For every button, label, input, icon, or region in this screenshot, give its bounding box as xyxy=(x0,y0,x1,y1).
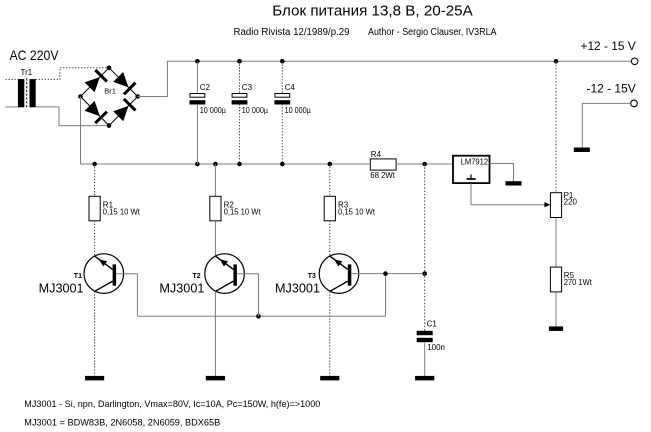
wire top bus to P1 xyxy=(555,61,557,192)
svg-text:Radio Rivista 12/1989/p.29: Radio Rivista 12/1989/p.29 xyxy=(234,27,350,38)
wire base bus riser xyxy=(385,274,387,317)
junction bridge left corner xyxy=(78,94,83,99)
terminal -12V output xyxy=(631,100,638,107)
svg-text:C1: C1 xyxy=(427,319,438,328)
wiper arrow P1 xyxy=(544,202,550,207)
wire R3 to T3 emitter xyxy=(329,221,331,256)
svg-text:100n: 100n xyxy=(427,343,445,352)
junction top bus P1 xyxy=(554,59,559,64)
svg-text:Блок питания 13,8 В, 20-25А: Блок питания 13,8 В, 20-25А xyxy=(272,3,473,19)
wire R4 to regulator xyxy=(396,163,453,165)
ground R5 xyxy=(549,326,563,331)
junction neg bus R3 xyxy=(328,162,333,167)
transistor T1 MJ3001 xyxy=(84,254,124,294)
wire base bus xyxy=(137,315,386,317)
ground regulator output xyxy=(506,181,522,185)
wire top bus to C3 xyxy=(239,61,241,93)
junction base bus T2 xyxy=(256,314,261,319)
junction regulator input node xyxy=(422,162,427,167)
junction neg bus C3 xyxy=(237,162,242,167)
diode Br1 lower-left xyxy=(85,101,107,123)
wire bridge negative down xyxy=(80,97,82,165)
wire -12V to ground xyxy=(582,103,630,147)
junction top bus C3 xyxy=(237,59,242,64)
wire T2 base xyxy=(237,274,259,317)
wire P1 to R5 xyxy=(555,218,557,268)
ground T3 xyxy=(320,376,339,381)
ground T1 xyxy=(85,376,104,381)
wire AC top stub xyxy=(6,78,18,80)
junction bridge top corner xyxy=(107,66,112,71)
diode Br1 upper-left xyxy=(85,70,107,92)
svg-text:T2: T2 xyxy=(193,273,201,280)
wire regulator node down to C1 xyxy=(424,164,426,331)
junction neg bus R1 xyxy=(92,162,97,167)
svg-text:-12 - 15V: -12 - 15V xyxy=(587,81,636,95)
junction node C1 xyxy=(422,271,427,276)
svg-text:Author - Sergio Clauser, IV3RL: Author - Sergio Clauser, IV3RLA xyxy=(368,27,497,38)
junction top bus C2 xyxy=(195,59,200,64)
wire T2 collector to ground xyxy=(214,291,216,376)
svg-text:0,15 10 Wt: 0,15 10 Wt xyxy=(103,208,141,217)
wire T3 base to node xyxy=(351,273,424,275)
regulator LM7912 xyxy=(453,156,490,183)
wire negative bus to R2 xyxy=(214,164,216,196)
svg-text:Br1: Br1 xyxy=(104,86,116,95)
svg-text:C2: C2 xyxy=(200,83,211,92)
wire negative bus xyxy=(81,163,371,165)
wire C1 to ground xyxy=(424,342,426,376)
resistor R3 xyxy=(324,196,335,221)
resistor R4 xyxy=(370,159,396,170)
wire C4 to negative bus xyxy=(281,104,283,164)
ground -12V xyxy=(574,148,590,153)
junction neg bus C2 xyxy=(195,162,200,167)
svg-text:+12 - 15 V: +12 - 15 V xyxy=(581,39,636,53)
wire R2 to T2 emitter xyxy=(214,221,216,256)
svg-text:R4: R4 xyxy=(371,150,382,159)
capacitor C2 10000u xyxy=(190,94,206,105)
ground T2 xyxy=(206,376,225,381)
resistor R1 xyxy=(89,196,100,221)
svg-text:T3: T3 xyxy=(308,273,316,280)
capacitor C3 10000u xyxy=(232,94,248,105)
wire secondary bottom to bridge xyxy=(36,107,109,126)
capacitor C1 100n xyxy=(417,331,433,342)
svg-text:10 000µ: 10 000µ xyxy=(200,106,227,115)
transformer Tr1 xyxy=(18,78,36,108)
wire T3 collector to ground xyxy=(329,291,331,376)
svg-text:MJ3001: MJ3001 xyxy=(159,280,204,295)
diode Br1 upper-right xyxy=(113,72,135,94)
wire C3 to negative bus xyxy=(239,104,241,164)
diode Br1 lower-right xyxy=(113,99,135,121)
svg-text:C3: C3 xyxy=(242,83,253,92)
junction base riser xyxy=(383,271,388,276)
wire negative bus to R1 xyxy=(94,164,96,196)
junction bridge bottom corner xyxy=(107,123,112,128)
svg-text:10 000µ: 10 000µ xyxy=(242,106,269,115)
svg-text:0,15 10 Wt: 0,15 10 Wt xyxy=(224,208,262,217)
wire negative bus to R3 xyxy=(329,164,331,196)
wire secondary top to bridge xyxy=(36,68,109,80)
svg-text:0,15 10 Wt: 0,15 10 Wt xyxy=(338,208,376,217)
ground C1 xyxy=(415,376,434,381)
wire top bus to C4 xyxy=(281,61,283,93)
wire AC bottom stub xyxy=(6,106,18,108)
wire bridge positive to top bus xyxy=(138,61,632,96)
svg-text:270 1Wt: 270 1Wt xyxy=(564,278,593,287)
wire R5 to ground xyxy=(555,292,557,327)
wire R1 to T1 emitter xyxy=(94,221,96,256)
wire T1 base xyxy=(116,274,137,317)
svg-text:T1: T1 xyxy=(74,273,82,280)
resistor R2 xyxy=(210,196,221,221)
svg-text:C4: C4 xyxy=(285,83,296,92)
svg-text:LM7912: LM7912 xyxy=(461,157,488,166)
junction top bus C4 xyxy=(280,59,285,64)
svg-text:MJ3001: MJ3001 xyxy=(275,280,320,295)
svg-text:MJ3001: MJ3001 xyxy=(39,280,84,295)
wire regulator gnd pin to wiper xyxy=(471,184,545,205)
junction bridge right corner xyxy=(135,94,140,99)
junction neg bus R2 xyxy=(213,162,218,167)
wire T1 collector to ground xyxy=(94,291,96,376)
svg-text:MJ3001 - Si, npn, Darlington,: MJ3001 - Si, npn, Darlington, Vmax=80V, … xyxy=(24,399,320,409)
svg-text:68 2Wt: 68 2Wt xyxy=(370,171,395,180)
transistor T3 MJ3001 xyxy=(319,254,359,294)
svg-text:Tr1: Tr1 xyxy=(21,68,33,77)
capacitor C4 10000u xyxy=(274,94,290,105)
terminal +12V output xyxy=(631,58,638,65)
svg-text:AC 220V: AC 220V xyxy=(10,47,60,63)
wire regulator output xyxy=(490,164,514,182)
svg-text:10 000µ: 10 000µ xyxy=(285,106,312,115)
regulator internal ground mark xyxy=(467,174,476,179)
svg-text:220: 220 xyxy=(564,198,578,207)
svg-text:MJ3001 = BDW83B, 2N6058, 2N605: MJ3001 = BDW83B, 2N6058, 2N6059, BDX65B xyxy=(24,417,220,427)
resistor R5 xyxy=(550,267,561,292)
transistor T2 MJ3001 xyxy=(205,254,245,294)
wire C2 to negative bus xyxy=(196,104,198,164)
potentiometer P1 xyxy=(550,193,561,218)
junction neg bus C4 xyxy=(280,162,285,167)
wire top bus to C2 xyxy=(196,61,198,93)
bridge Br1 outline xyxy=(81,68,138,126)
